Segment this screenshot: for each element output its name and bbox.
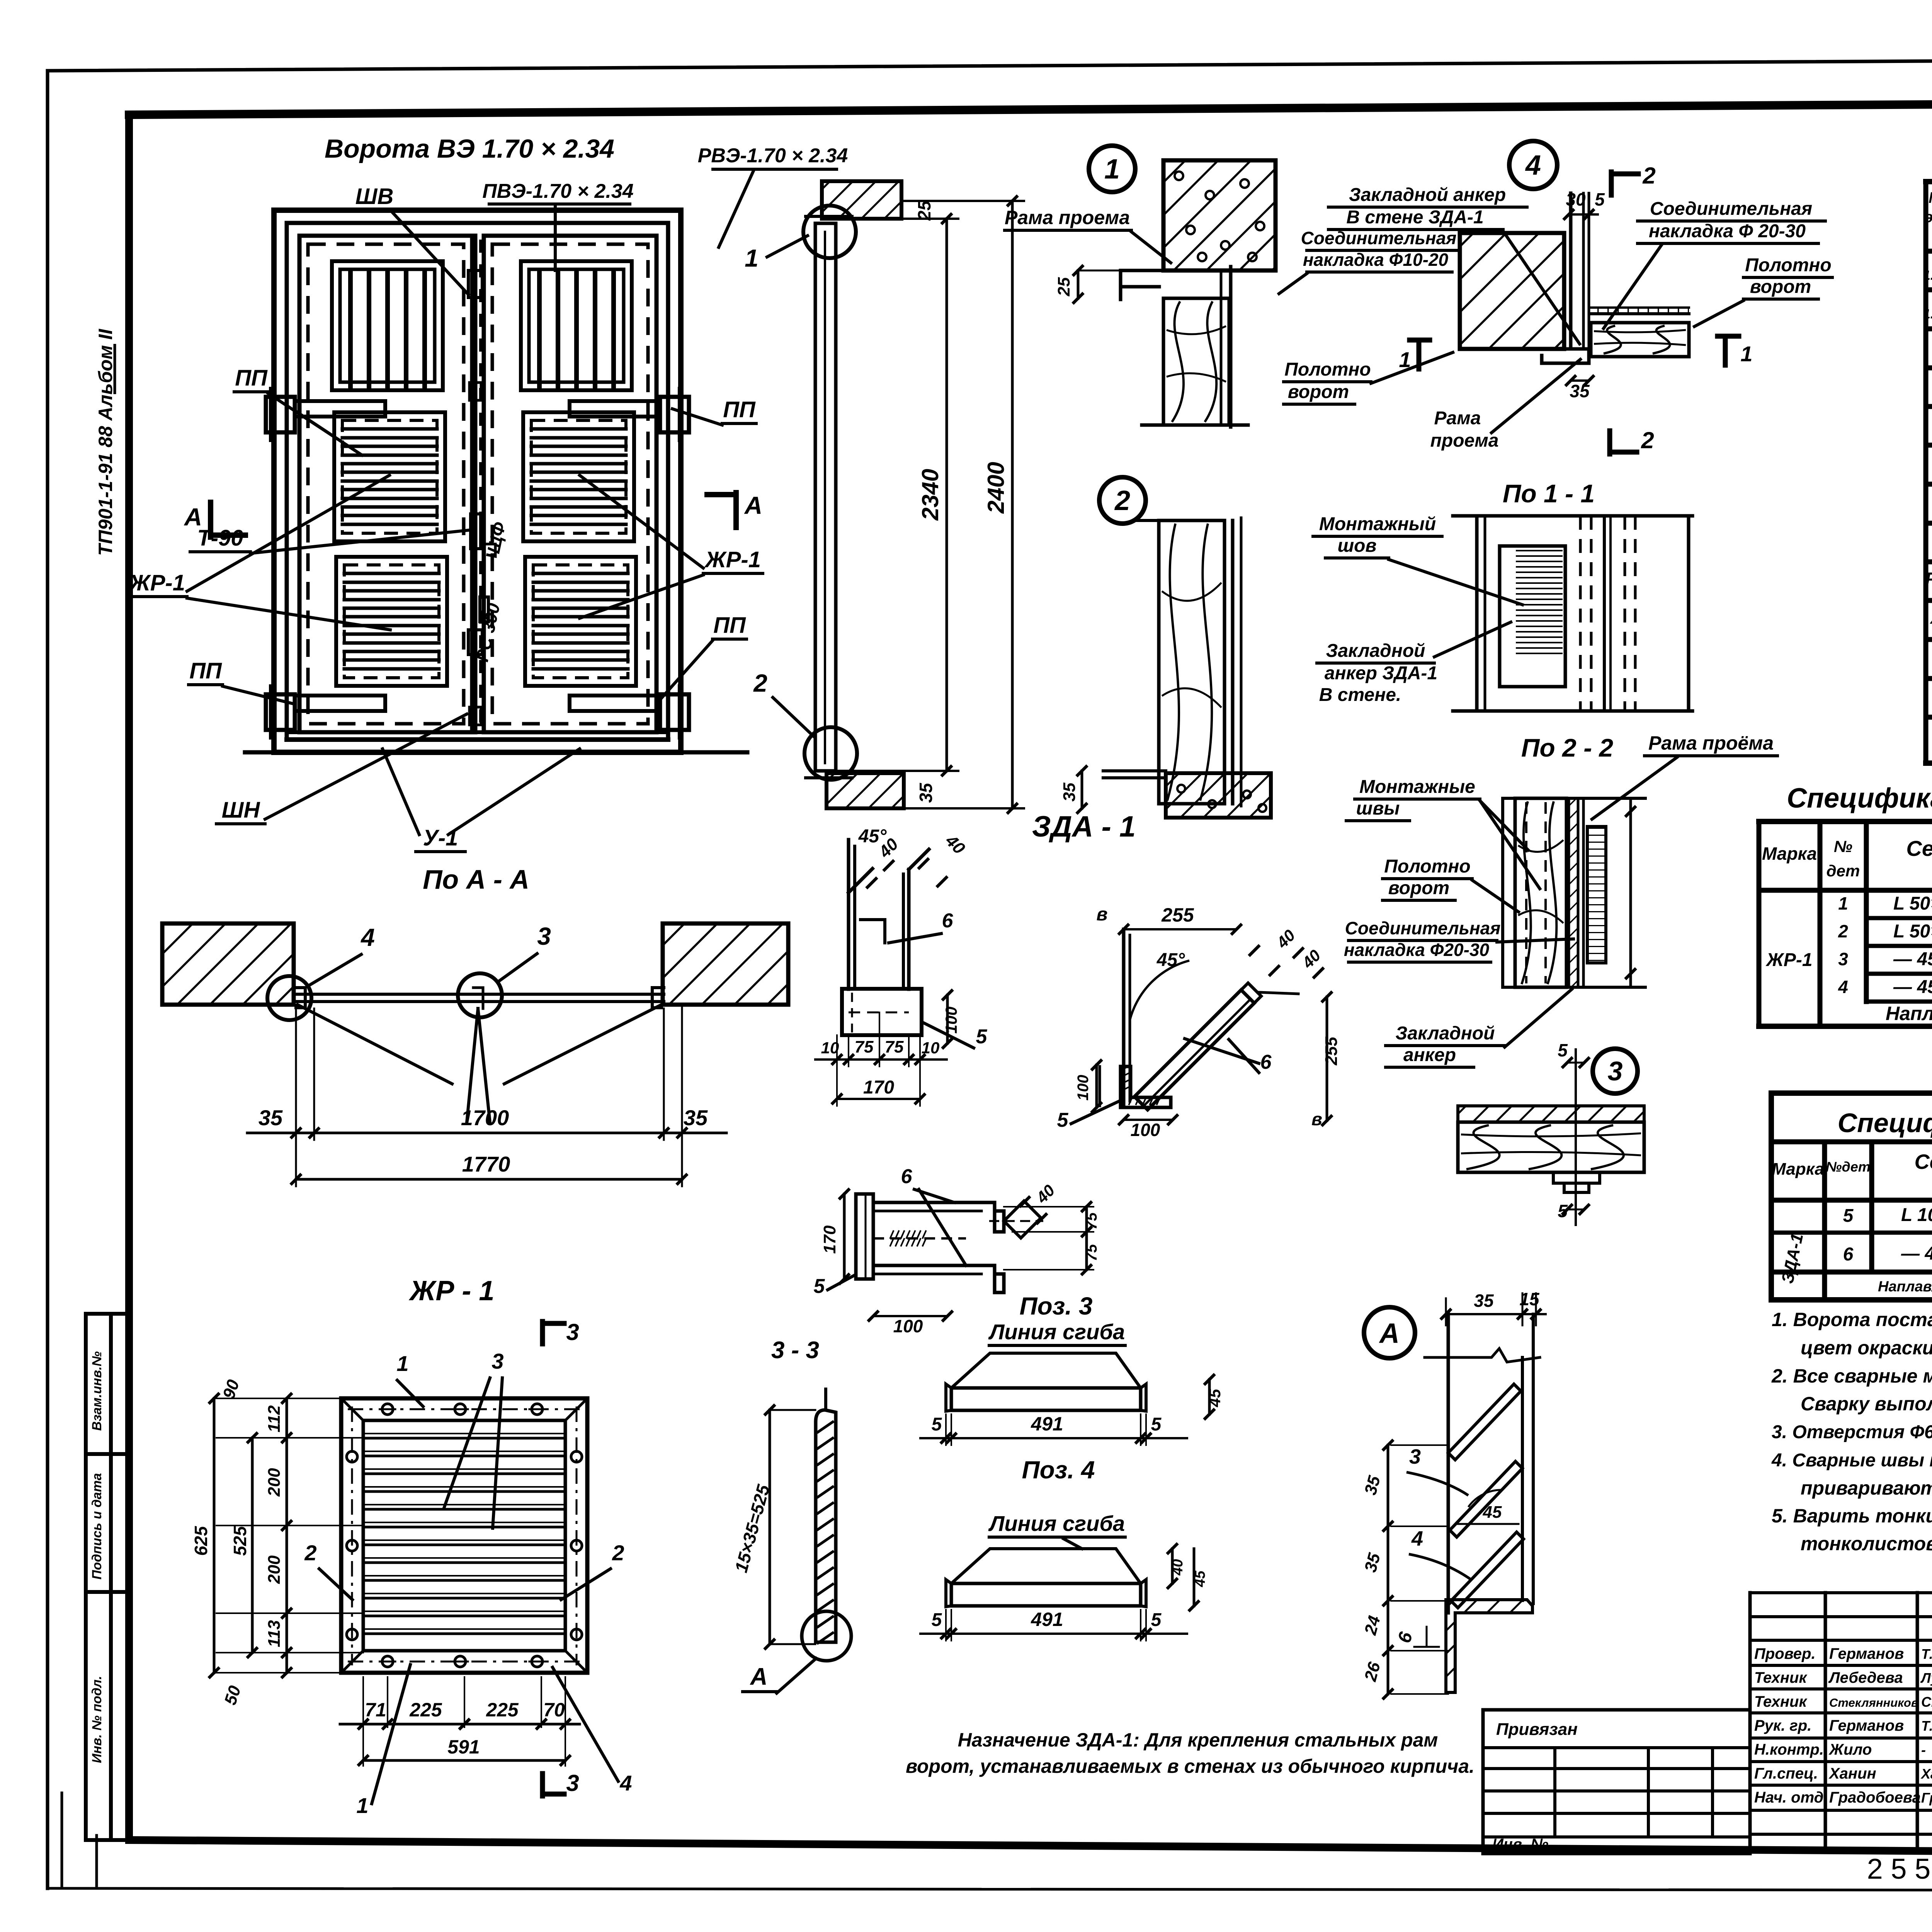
ЗДА-1 side diagonal angle bar — [1134, 990, 1254, 1110]
svg-text:4: 4 — [1838, 977, 1848, 997]
svg-text:По А - А: По А - А — [423, 864, 529, 895]
hinge ПП bottom right — [660, 694, 689, 730]
svg-text:Сварку выполнять электродами: Сварку выполнять электродами типа Э42 . — [1801, 1393, 1932, 1415]
svg-text:Стеклянников: Стеклянников — [1829, 1696, 1918, 1709]
gate left middle louver panel ЖР-1 — [334, 412, 445, 541]
ПоАА left wall hatched — [162, 923, 294, 1005]
Поз.4 bent plate — [951, 1549, 1141, 1583]
svg-text:5: 5 — [1151, 1610, 1162, 1630]
svg-text:швы: швы — [1356, 798, 1400, 819]
detail2 sill lines — [1103, 769, 1166, 772]
svg-text:Полотно: Полотно — [1384, 856, 1470, 877]
svg-text:ЖР-1: ЖР-1 — [704, 547, 761, 572]
По2-2 splice plate hatched strip — [1569, 798, 1578, 987]
svg-text:1: 1 — [1740, 342, 1752, 366]
svg-text:2: 2 — [1641, 427, 1654, 453]
ЖР-1 bolts — [382, 1404, 393, 1415]
svg-text:2400: 2400 — [983, 462, 1009, 514]
svg-text:6: 6 — [1843, 1244, 1854, 1265]
По2-2 grille edge strip — [1587, 827, 1606, 963]
svg-text:элемен: элемен — [1925, 209, 1932, 226]
svg-text:2: 2 — [1642, 163, 1655, 189]
section detail circle 2 — [804, 727, 857, 780]
svg-text:Хани: Хани — [1920, 1766, 1932, 1782]
svg-text:2340: 2340 — [917, 469, 943, 520]
detail4 wall hatched — [1460, 233, 1564, 349]
По1-1 jamb lines — [1579, 516, 1582, 711]
svg-text:10: 10 — [922, 1039, 940, 1057]
svg-text:ворот: ворот — [1388, 878, 1449, 898]
svg-text:Соединительная: Соединительная — [1650, 199, 1812, 219]
svg-text:3: 3 — [1838, 949, 1848, 969]
3-3 bent strip hatched — [816, 1410, 836, 1642]
ЖР-1 louver lines — [363, 1437, 565, 1440]
svg-text:1: 1 — [1104, 154, 1120, 185]
svg-text:5: 5 — [814, 1275, 825, 1298]
svg-text:112: 112 — [265, 1405, 284, 1432]
detail4 frame profile bottom — [1460, 349, 1589, 363]
ЗДА-1 side angle bracket — [1121, 1066, 1171, 1107]
svg-text:А: А — [1379, 1318, 1400, 1349]
svg-text:Полотно: Полотно — [1284, 359, 1371, 380]
svg-text:255: 255 — [1161, 904, 1194, 926]
svg-text:591: 591 — [447, 1736, 480, 1758]
gate right bottom louver panel ЖР-1 — [525, 557, 636, 686]
Поз.4 dims — [945, 1610, 947, 1641]
svg-text:А: А — [750, 1663, 768, 1690]
svg-text:2. Все сварные монтажные ш: 2. Все сварные монтажные швы толщиной h … — [1771, 1365, 1932, 1387]
svg-text:Градобоева: Градобоева — [1829, 1789, 1921, 1806]
svg-text:Соединительная: Соединительная — [1301, 228, 1457, 248]
gate outer frame — [274, 210, 681, 752]
detail А bottom hatched L profile — [1446, 1600, 1532, 1692]
ПоАА dim 35 1700 35 — [295, 1005, 297, 1140]
svg-text:1770: 1770 — [462, 1152, 510, 1176]
ground line under gate — [245, 750, 747, 755]
ПоАА detail circle 3 — [458, 973, 502, 1017]
svg-text:Инв. №: Инв. № — [1492, 1836, 1548, 1853]
svg-text:тонколистовых элементов .: тонколистовых элементов . — [1801, 1533, 1932, 1554]
svg-text:Т.Гер: Т.Гер — [1921, 1718, 1932, 1734]
detail А louver blades — [1448, 1384, 1521, 1460]
svg-text:Закладной: Закладной — [1396, 1023, 1495, 1044]
svg-text:45: 45 — [1483, 1503, 1502, 1522]
svg-text:4: 4 — [1411, 1527, 1423, 1550]
svg-text:5: 5 — [1151, 1414, 1162, 1435]
svg-text:3: 3 — [1608, 1056, 1623, 1086]
svg-text:5: 5 — [976, 1026, 988, 1048]
svg-text:100: 100 — [893, 1316, 923, 1336]
middle latch ЩФ symbol — [471, 514, 481, 549]
svg-text:Полотно: Полотно — [1745, 255, 1831, 276]
svg-text:Т-90: Т-90 — [197, 526, 243, 551]
svg-text:№дет: №дет — [1826, 1159, 1871, 1175]
svg-text:3: 3 — [537, 922, 551, 950]
svg-text:РС300: РС300 — [1925, 569, 1932, 589]
svg-text:5: 5 — [1843, 1206, 1854, 1226]
svg-text:анкер: анкер — [1403, 1045, 1456, 1065]
svg-text:170: 170 — [820, 1225, 839, 1254]
detail4 section mark 1 left — [1417, 340, 1422, 369]
ПоАА swing leaders — [298, 1005, 452, 1084]
По1-1 weld shading — [1517, 550, 1562, 551]
svg-text:4: 4 — [619, 1771, 632, 1795]
detail4 dim 35 bottom — [1571, 379, 1589, 382]
detail4 section mark 2 bottom — [1607, 431, 1612, 454]
ЖР-1 section mark 3 top — [540, 1321, 545, 1344]
detail А channel verticals — [1447, 1314, 1450, 1613]
svg-text:Германов: Германов — [1829, 1717, 1904, 1734]
svg-text:Линия сгиба: Линия сгиба — [988, 1511, 1125, 1536]
svg-text:Поз. 3: Поз. 3 — [1020, 1292, 1093, 1320]
detail2 wood jamb tall — [1159, 520, 1225, 804]
svg-text:ПП: ПП — [723, 397, 756, 422]
section top wall block hatched — [822, 181, 901, 219]
3-3 dim 15x35=525 — [769, 1410, 771, 1644]
svg-text:75: 75 — [1083, 1212, 1100, 1230]
svg-text:Наплавленный металл: Наплавленный металл — [1886, 1003, 1932, 1024]
left margin small mark — [61, 1793, 63, 1886]
handle РС300 symbol — [480, 597, 488, 622]
svg-text:5: 5 — [1558, 1040, 1568, 1060]
section bottom wall block hatched — [827, 773, 904, 808]
svg-text:2: 2 — [1838, 921, 1848, 941]
svg-text:5: 5 — [1057, 1109, 1069, 1131]
svg-text:шов: шов — [1338, 536, 1377, 556]
svg-text:6: 6 — [1260, 1051, 1272, 1073]
title block staff table — [1748, 1593, 1752, 1851]
ПоАА dim 1770 — [295, 1140, 297, 1186]
svg-text:Лузг.: Лузг. — [1920, 1670, 1932, 1686]
svg-text:4: 4 — [360, 923, 375, 951]
hinge ПП top left — [266, 397, 295, 432]
ПоАА door leaves plan lines — [294, 993, 664, 996]
section detail circle 1 — [803, 206, 856, 258]
detail circle 1 head — [1089, 146, 1135, 192]
svg-text:— 40×4: — 40×4 — [1901, 1243, 1932, 1264]
svg-text:Техник: Техник — [1754, 1669, 1807, 1686]
svg-text:Спецификация стали на одн: Спецификация стали на одна изделие — [1838, 1108, 1932, 1138]
svg-text:100: 100 — [1131, 1120, 1160, 1140]
detail3 bracket below — [1553, 1172, 1600, 1183]
svg-text:6: 6 — [942, 910, 954, 932]
gate right middle louver panel ЖР-1 — [523, 412, 634, 541]
svg-text:ЖР-1: ЖР-1 — [1765, 950, 1812, 970]
detail1 dim 25 — [1077, 270, 1080, 298]
svg-text:2: 2 — [1114, 485, 1130, 516]
svg-text:Германов: Германов — [1829, 1645, 1904, 1662]
table C outer border — [1771, 1093, 1932, 1300]
Поз.3 dims — [945, 1414, 947, 1445]
svg-text:225: 225 — [486, 1699, 519, 1721]
svg-text:25: 25 — [914, 200, 934, 221]
svg-text:5: 5 — [1595, 189, 1605, 209]
svg-text:Степ: Степ — [1921, 1694, 1932, 1710]
svg-text:Рук. гр.: Рук. гр. — [1754, 1717, 1811, 1734]
hinge ПП bottom left — [266, 694, 295, 730]
svg-text:Ханин: Ханин — [1828, 1765, 1876, 1782]
svg-text:75: 75 — [885, 1037, 904, 1056]
svg-text:Н.контр.: Н.контр. — [1754, 1741, 1824, 1758]
sheet thin outer border — [48, 58, 1932, 71]
detail А dims top — [1446, 1313, 1522, 1315]
svg-text:Гл.спец.: Гл.спец. — [1754, 1765, 1818, 1782]
svg-text:1: 1 — [396, 1351, 408, 1376]
svg-text:накладка Ф10-20: накладка Ф10-20 — [1303, 250, 1449, 270]
svg-text:L 100×8: L 100×8 — [1901, 1205, 1932, 1225]
svg-text:Марка: Марка — [1762, 844, 1817, 864]
svg-text:Рама проёма: Рама проёма — [1648, 732, 1774, 754]
gate right leaf — [484, 236, 656, 732]
gate inner frame — [287, 223, 668, 740]
svg-text:Т.Гер: Т.Гер — [1921, 1646, 1932, 1662]
ЗДА-1 anchor top view — [856, 1194, 873, 1279]
svg-text:цвет окраски принимать по: цвет окраски принимать по проекту . — [1801, 1337, 1932, 1359]
svg-text:75: 75 — [855, 1037, 874, 1056]
По2-2 top rail line — [1503, 797, 1645, 800]
sheet thick inner frame — [129, 101, 1932, 115]
svg-text:25: 25 — [1054, 277, 1073, 296]
detail1 ground line — [1142, 423, 1248, 427]
svg-text:45: 45 — [1192, 1570, 1208, 1587]
svg-text:200: 200 — [265, 1468, 284, 1497]
svg-text:— 45×1,5: — 45×1,5 — [1893, 949, 1932, 969]
detail circle 2 head — [1099, 477, 1146, 524]
svg-text:Подпись и дата: Подпись и дата — [90, 1473, 104, 1580]
svg-text:100: 100 — [942, 1007, 960, 1034]
svg-text:Поз. 4: Поз. 4 — [1022, 1456, 1095, 1484]
svg-text:71: 71 — [365, 1699, 386, 1721]
detail1 wood jamb — [1163, 298, 1229, 425]
svg-text:накладка Ф 20-30: накладка Ф 20-30 — [1649, 221, 1806, 241]
svg-text:Закладной: Закладной — [1326, 641, 1425, 661]
svg-text:ПП: ПП — [713, 613, 746, 638]
svg-text:ТП901-1-91 88 Альбом II: ТП901-1-91 88 Альбом II — [95, 328, 116, 556]
svg-text:По 2 - 2: По 2 - 2 — [1521, 733, 1613, 762]
svg-text:4: 4 — [1525, 150, 1541, 181]
svg-text:ПП: ПП — [189, 658, 222, 684]
svg-text:Сечение: Сечение — [1906, 836, 1932, 861]
ЖР-1 bottom dim chains — [362, 1677, 364, 1727]
svg-text:3: 3 — [566, 1770, 579, 1796]
section door slab — [814, 223, 817, 771]
svg-text:70: 70 — [543, 1699, 565, 1721]
ЖР-1 section mark 3 bottom — [540, 1774, 545, 1796]
svg-text:Сечение: Сечение — [1915, 1150, 1932, 1173]
svg-text:Провер.: Провер. — [1754, 1645, 1816, 1662]
svg-text:Нач. отд.: Нач. отд. — [1754, 1789, 1828, 1806]
detail3 wood lintel — [1458, 1122, 1644, 1172]
table B grid — [1757, 821, 1762, 1026]
detail1 concrete wall — [1163, 160, 1276, 270]
svg-text:ворот: ворот — [1288, 382, 1349, 402]
svg-text:6: 6 — [901, 1165, 913, 1188]
svg-text:1.70×2,34: 1.70×2,34 — [1923, 307, 1932, 321]
svg-text:ЗДА - 1: ЗДА - 1 — [1032, 810, 1136, 843]
detail А top break line — [1425, 1349, 1540, 1362]
svg-text:40: 40 — [1170, 1559, 1186, 1576]
svg-text:5: 5 — [932, 1414, 942, 1435]
title block attach table Привязан — [1483, 1710, 1750, 1854]
ЖР-1 left dim chains — [216, 1398, 363, 1399]
svg-text:491: 491 — [1031, 1609, 1063, 1630]
detail1 frame profile — [1121, 270, 1163, 287]
svg-text:3: 3 — [1409, 1445, 1421, 1468]
ЖР-1 inner frame — [363, 1420, 565, 1651]
svg-text:113: 113 — [265, 1620, 284, 1647]
svg-text:По 1 - 1: По 1 - 1 — [1503, 479, 1595, 508]
svg-text:L 50×5: L 50×5 — [1893, 921, 1932, 942]
section dim 2400 — [1011, 201, 1014, 808]
svg-text:255: 255 — [1322, 1037, 1341, 1066]
svg-text:А: А — [744, 492, 762, 519]
section mark А left — [208, 502, 213, 537]
detail circle 3 head — [1593, 1049, 1638, 1094]
svg-text:-: - — [1921, 1742, 1926, 1758]
ЖР-1 outer frame — [341, 1398, 587, 1673]
hinge ПП top right — [660, 397, 689, 432]
svg-text:ЖР-1: ЖР-1 — [128, 570, 185, 595]
svg-text:в: в — [1097, 904, 1108, 925]
svg-text:35: 35 — [1060, 782, 1079, 801]
left stamp column boxes — [84, 1314, 88, 1840]
ЗДА-1 top view rotated square end — [1004, 1201, 1041, 1238]
svg-text:Инв. № подл.: Инв. № подл. — [90, 1676, 104, 1763]
svg-text:L 50×5: L 50×5 — [1893, 893, 1932, 914]
gate left top vent panel — [332, 261, 443, 390]
svg-text:привариваются швом 2 мм .: привариваются швом 2 мм . — [1801, 1477, 1932, 1499]
gate center meeting stile — [473, 236, 478, 732]
svg-text:200: 200 — [265, 1555, 284, 1584]
svg-text:дет: дет — [1827, 862, 1860, 880]
svg-text:в: в — [1311, 1109, 1322, 1129]
svg-text:35: 35 — [684, 1105, 708, 1130]
gate left leaf — [299, 236, 472, 732]
svg-text:5: 5 — [932, 1610, 942, 1630]
svg-text:Наплавленный металл (электрод: Наплавленный металл (электроды типа Э42) — [1878, 1279, 1932, 1295]
svg-text:1: 1 — [1838, 893, 1848, 913]
detail А left dim chain — [1391, 1444, 1448, 1446]
svg-text:ПВЭ-1.70 × 2.34: ПВЭ-1.70 × 2.34 — [482, 180, 633, 202]
svg-text:45: 45 — [1206, 1389, 1224, 1407]
svg-text:1700: 1700 — [461, 1105, 509, 1130]
svg-text:525: 525 — [230, 1526, 250, 1556]
svg-text:3: 3 — [492, 1349, 503, 1373]
svg-text:В стене ЗДА-1: В стене ЗДА-1 — [1346, 207, 1483, 228]
svg-text:170: 170 — [863, 1077, 894, 1098]
ЗДА-1 anchor front base channel — [842, 989, 922, 1035]
svg-text:35: 35 — [1570, 381, 1590, 401]
svg-text:Ворота ВЭ 1.70 × 2.34: Ворота ВЭ 1.70 × 2.34 — [325, 134, 614, 163]
svg-text:РВЭ-1.70 × 2.34: РВЭ-1.70 × 2.34 — [698, 145, 848, 167]
svg-text:2: 2 — [304, 1541, 316, 1565]
svg-text:2: 2 — [753, 669, 767, 697]
svg-text:1: 1 — [356, 1793, 368, 1818]
svg-text:100: 100 — [1075, 1075, 1092, 1101]
svg-text:ворот, устанавливаемых в стена: ворот, устанавливаемых в стенах из обычн… — [906, 1755, 1475, 1777]
svg-text:Закладной анкер: Закладной анкер — [1349, 185, 1506, 205]
ЖР-1 centerlines dashed — [351, 1406, 353, 1665]
svg-text:625: 625 — [191, 1526, 211, 1556]
svg-text:ШВ: ШВ — [355, 184, 394, 209]
svg-text:В стене.: В стене. — [1319, 685, 1401, 705]
gate right top vent panel — [521, 261, 632, 390]
svg-text:35: 35 — [1474, 1291, 1494, 1311]
ЖР-1 mitre corners — [341, 1398, 363, 1420]
svg-text:Спецификация стали на одн: Спецификация стали на одно изделие — [1787, 783, 1932, 814]
svg-text:35: 35 — [259, 1105, 283, 1130]
svg-text:2 5 5 6 2 - 0 2: 2 5 5 6 2 - 0 2 — [1867, 1853, 1932, 1885]
svg-text:1: 1 — [745, 244, 759, 272]
svg-text:Марка: Марка — [1772, 1160, 1824, 1179]
svg-text:10: 10 — [821, 1039, 839, 1057]
По1-1 left wall line — [1475, 516, 1479, 711]
svg-text:Привязан: Привязан — [1496, 1720, 1578, 1739]
svg-text:3. Отверстия Ф6мм сверленные: 3. Отверстия Ф6мм сверленные , зенкованн… — [1772, 1422, 1932, 1442]
detail2 bottom concrete — [1166, 773, 1271, 818]
svg-text:1.70×2,34: 1.70×2,34 — [1923, 268, 1932, 283]
svg-text:Лебедева: Лебедева — [1828, 1669, 1903, 1686]
svg-text:ворот: ворот — [1750, 277, 1811, 297]
bottom shpingalet ШН symbol — [468, 630, 482, 655]
svg-text:75: 75 — [1083, 1244, 1100, 1261]
detail circle А head — [1364, 1307, 1415, 1358]
svg-text:3: 3 — [566, 1319, 579, 1345]
По1-1 anchor channel — [1500, 546, 1565, 687]
svg-text:проема: проема — [1430, 430, 1499, 451]
table C grid — [1771, 1139, 1932, 1145]
detail4 section mark 2 top — [1609, 172, 1614, 195]
detail circle 4 head — [1509, 141, 1557, 189]
svg-text:35: 35 — [916, 782, 936, 803]
table A grid — [1923, 182, 1929, 717]
svg-text:491: 491 — [1031, 1413, 1063, 1435]
detail3 lintel hatched strip — [1458, 1106, 1644, 1122]
gate bottom sill — [287, 730, 668, 734]
Поз.3 bent plate — [951, 1353, 1141, 1388]
svg-text:Марка: Марка — [1929, 189, 1932, 206]
top shpingalet ШВ symbol — [468, 270, 482, 298]
svg-text:Линия сгиба: Линия сгиба — [988, 1320, 1125, 1344]
svg-text:анкер ЗДА-1: анкер ЗДА-1 — [1325, 663, 1437, 684]
svg-text:Назначение ЗДА-1: Для креплен: Назначение ЗДА-1: Для крепления стальных… — [958, 1729, 1438, 1751]
detail4 jamb verticals — [1569, 193, 1573, 349]
ПоАА detail circle 4 — [267, 976, 311, 1020]
svg-text:5. Варить тонким электродом: 5. Варить тонким электродом , соблюдая р… — [1772, 1505, 1932, 1527]
svg-text:Соединительная: Соединительная — [1345, 918, 1501, 938]
3-3 detail circle А — [802, 1611, 851, 1661]
По2-2 edge lines — [1501, 798, 1504, 987]
По2-2 wood frame strip — [1515, 798, 1566, 987]
svg-text:№: № — [1834, 837, 1852, 855]
svg-text:Монтажные: Монтажные — [1359, 777, 1475, 797]
svg-text:Техник: Техник — [1754, 1693, 1807, 1710]
section mark А right — [733, 493, 739, 527]
По2-2 dim line right — [1629, 798, 1632, 987]
detail2 dim 35 — [1081, 771, 1083, 808]
svg-text:3 - 3: 3 - 3 — [771, 1337, 819, 1364]
svg-text:— 45×1,5: — 45×1,5 — [1893, 977, 1932, 997]
svg-text:4. Сварные швы толщиной 5 м: 4. Сварные швы толщиной 5 мм , за исключ… — [1771, 1450, 1932, 1471]
svg-text:ЖР - 1: ЖР - 1 — [408, 1276, 495, 1306]
svg-text:А: А — [184, 503, 202, 531]
svg-text:225: 225 — [409, 1699, 442, 1721]
svg-text:Рама проема: Рама проема — [1005, 207, 1130, 228]
svg-text:30: 30 — [1566, 189, 1586, 209]
svg-text:Град: Град — [1921, 1790, 1932, 1806]
svg-text:накладка Ф20-30: накладка Ф20-30 — [1344, 940, 1490, 960]
svg-text:Монтажный: Монтажный — [1319, 514, 1436, 534]
